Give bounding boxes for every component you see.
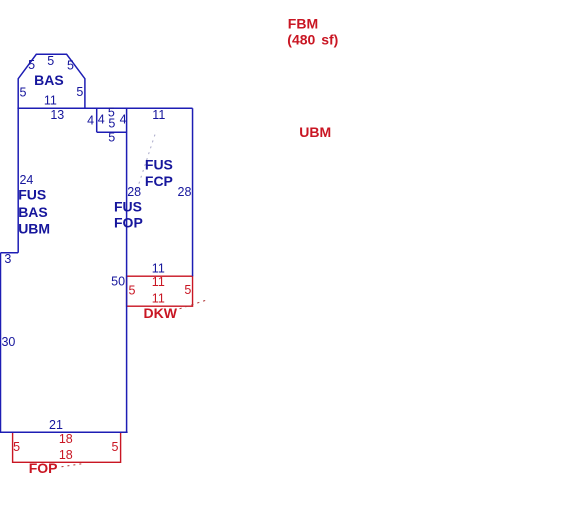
FUS FCP leader line <box>137 131 156 190</box>
svg-text:4: 4 <box>87 113 94 127</box>
svg-text:5: 5 <box>129 283 136 297</box>
right vertical wall <box>192 108 194 276</box>
svg-text:5: 5 <box>67 59 74 73</box>
svg-text:5: 5 <box>13 440 20 454</box>
svg-text:UBM: UBM <box>299 124 331 140</box>
svg-text:24: 24 <box>19 173 33 187</box>
svg-text:(480 sf): (480 sf) <box>287 31 338 47</box>
svg-text:4: 4 <box>98 113 105 127</box>
svg-text:FOP: FOP <box>29 460 58 476</box>
FOP rectangle <box>13 432 121 462</box>
svg-text:3: 3 <box>4 252 11 266</box>
svg-text:FUS: FUS <box>114 198 142 214</box>
svg-text:5: 5 <box>108 130 115 144</box>
svg-text:UBM: UBM <box>18 221 50 237</box>
DKW leader line <box>180 300 207 309</box>
svg-text:FBM: FBM <box>288 15 318 31</box>
svg-text:5: 5 <box>20 86 27 100</box>
BAS bay wall outline <box>18 54 85 108</box>
svg-text:FCP: FCP <box>145 173 173 189</box>
svg-text:50: 50 <box>111 275 125 289</box>
notch left wall <box>96 108 98 132</box>
svg-text:11: 11 <box>152 262 165 276</box>
top wall y=108 <box>17 107 192 109</box>
svg-text:5: 5 <box>108 117 115 131</box>
svg-text:5: 5 <box>76 85 83 99</box>
FOP leader line <box>62 464 84 467</box>
svg-text:5: 5 <box>112 440 119 454</box>
left outer vertical wall <box>0 253 2 433</box>
svg-text:FUS: FUS <box>18 187 46 203</box>
left upper vertical wall <box>17 108 19 253</box>
svg-text:30: 30 <box>1 335 15 349</box>
svg-text:11: 11 <box>152 275 165 289</box>
svg-text:5: 5 <box>47 54 54 68</box>
bottom wall <box>0 431 128 433</box>
svg-text:28: 28 <box>178 185 192 199</box>
svg-text:18: 18 <box>59 448 73 462</box>
svg-text:11: 11 <box>44 94 57 108</box>
svg-text:28: 28 <box>127 185 141 199</box>
DKW rectangle <box>127 276 193 306</box>
svg-text:18: 18 <box>59 432 73 446</box>
svg-text:21: 21 <box>49 418 63 432</box>
svg-text:FUS: FUS <box>145 157 173 173</box>
svg-text:4: 4 <box>120 113 127 127</box>
notch bottom wall <box>97 131 127 133</box>
step jog wall <box>1 252 19 254</box>
svg-text:11: 11 <box>152 108 165 122</box>
svg-text:DKW: DKW <box>144 305 178 321</box>
svg-text:BAS: BAS <box>34 72 64 88</box>
svg-text:BAS: BAS <box>18 204 48 220</box>
center long vertical wall <box>126 108 128 432</box>
svg-text:13: 13 <box>50 108 64 122</box>
svg-text:FOP: FOP <box>114 215 143 231</box>
svg-text:11: 11 <box>152 292 165 306</box>
svg-text:5: 5 <box>28 58 35 72</box>
svg-text:5: 5 <box>184 283 191 297</box>
